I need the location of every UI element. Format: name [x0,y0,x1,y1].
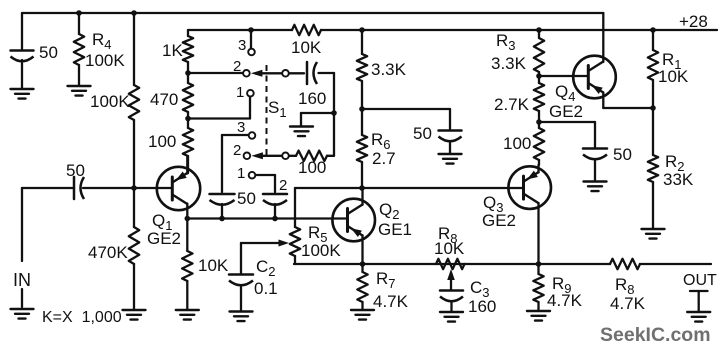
svg-text:50: 50 [613,145,632,164]
svg-text:1K: 1K [162,41,183,60]
svg-text:3.3K: 3.3K [491,54,527,73]
svg-text:GE2: GE2 [147,229,181,248]
svg-text:470K: 470K [88,243,128,262]
svg-text:33K: 33K [663,170,694,189]
svg-text:2: 2 [233,142,241,159]
svg-text:GE1: GE1 [378,220,412,239]
svg-text:1: 1 [236,84,244,101]
svg-text:1: 1 [237,165,245,182]
svg-text:+28: +28 [679,12,708,31]
svg-text:GE2: GE2 [482,211,516,230]
svg-text:160: 160 [468,297,496,316]
svg-text:100: 100 [298,158,326,177]
svg-text:3.3K: 3.3K [371,60,407,79]
svg-text:50: 50 [237,189,256,208]
svg-text:10K: 10K [198,256,229,275]
svg-text:470: 470 [150,90,178,109]
svg-text:100K: 100K [90,92,130,111]
svg-text:10K: 10K [434,239,465,258]
svg-text:100: 100 [503,134,531,153]
svg-text:100: 100 [148,132,176,151]
svg-text:0.1: 0.1 [254,279,278,298]
svg-text:3: 3 [238,37,246,54]
svg-text:GE2: GE2 [549,102,583,121]
svg-text:100K: 100K [301,241,341,260]
svg-text:2: 2 [279,177,287,194]
svg-text:SeekIC.com: SeekIC.com [600,324,711,346]
svg-text:2.7: 2.7 [372,149,396,168]
svg-text:K=X 1,000: K=X 1,000 [42,309,122,326]
svg-text:4.7K: 4.7K [547,291,583,310]
svg-text:4.7K: 4.7K [610,294,646,313]
svg-text:2: 2 [233,58,241,75]
svg-text:50: 50 [413,124,432,143]
svg-text:2.7K: 2.7K [494,95,530,114]
svg-text:4.7K: 4.7K [373,292,409,311]
svg-text:3: 3 [237,119,245,136]
svg-text:50: 50 [66,161,85,180]
svg-text:160: 160 [298,89,326,108]
svg-text:10K: 10K [658,67,689,86]
svg-text:OUT: OUT [683,272,717,289]
svg-text:100K: 100K [85,51,125,70]
svg-text:50: 50 [39,43,58,62]
svg-text:IN: IN [13,270,31,290]
svg-text:10K: 10K [291,38,322,57]
